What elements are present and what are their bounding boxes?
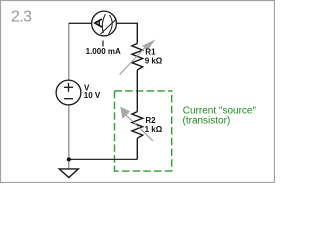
R2 variable arrow (120, 107, 153, 141)
wire left vertical (68, 23, 70, 160)
wire ground stub (68, 159, 70, 169)
wire top horizontal (69, 22, 138, 24)
resistor R1 (132, 43, 143, 70)
highlight box (green dashed) around R2 (115, 91, 173, 172)
svg-text:1.000 mA: 1.000 mA (86, 47, 121, 56)
resistor R2 (132, 112, 143, 139)
svg-text:R1: R1 (145, 47, 156, 56)
node junction dot (67, 157, 71, 161)
page border (1, 1, 275, 183)
wire right vertical (top segment) (136, 23, 138, 44)
svg-text:10 V: 10 V (84, 91, 101, 100)
svg-text:1 kΩ: 1 kΩ (145, 125, 163, 134)
wire bottom horizontal (69, 158, 138, 160)
svg-text:9 kΩ: 9 kΩ (145, 57, 163, 66)
wire right vertical (bottom segment) (136, 138, 138, 159)
ground (59, 169, 78, 178)
svg-text:2.3: 2.3 (11, 9, 32, 26)
ammeter U1 (92, 11, 117, 36)
svg-text:(transistor): (transistor) (183, 116, 231, 127)
R1 variable arrow (120, 40, 156, 75)
wire right vertical (middle segment) (136, 70, 138, 112)
voltage source V (56, 80, 81, 105)
svg-text:R2: R2 (145, 116, 156, 125)
